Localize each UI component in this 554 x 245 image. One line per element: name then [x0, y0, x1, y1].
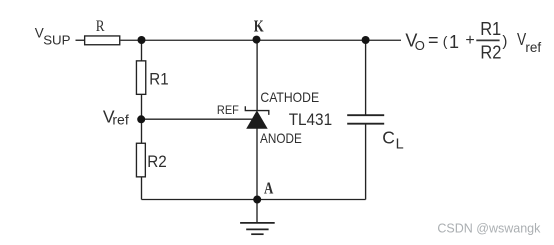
- svg-text:K: K: [254, 17, 264, 36]
- svg-text:C: C: [382, 128, 395, 148]
- svg-text:ref: ref: [112, 112, 128, 128]
- svg-text:): ): [502, 33, 507, 50]
- svg-text:O: O: [415, 38, 425, 53]
- svg-text:R: R: [96, 18, 105, 35]
- svg-text:R1: R1: [149, 69, 168, 88]
- svg-text:R1: R1: [480, 19, 501, 39]
- svg-text:1: 1: [449, 32, 459, 52]
- svg-text:CATHODE: CATHODE: [260, 90, 319, 105]
- svg-text:(: (: [443, 33, 448, 49]
- svg-text:REF: REF: [217, 104, 239, 117]
- svg-text:=: =: [428, 30, 439, 50]
- svg-text:+: +: [465, 32, 474, 49]
- svg-text:A: A: [264, 179, 274, 198]
- svg-text:ref: ref: [525, 40, 541, 55]
- svg-text:TL431: TL431: [289, 111, 332, 129]
- svg-text:L: L: [396, 137, 404, 153]
- svg-text:R2: R2: [480, 43, 501, 63]
- svg-text:SUP: SUP: [43, 32, 70, 47]
- svg-text:ANODE: ANODE: [260, 131, 302, 146]
- svg-text:R2: R2: [147, 152, 167, 171]
- svg-text:CSDN @wswangk: CSDN @wswangk: [437, 222, 541, 236]
